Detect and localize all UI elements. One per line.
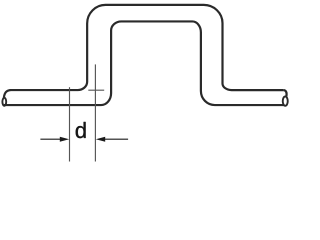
wire: right tube end hook (284, 90, 287, 96)
wire: left tube end hook (4, 90, 11, 98)
diagram: offset tube bend with dimension d (0, 0, 291, 165)
wire: tube upper wall outline (10, 5, 284, 90)
node: left tube end ellipse (2, 98, 6, 106)
label d (dimension text) (76, 122, 86, 138)
wire: right dimension arrow (104, 138, 128, 140)
wire: tube lower wall outline (4, 21, 284, 105)
wire: bend tangent cross mark (88, 89, 104, 91)
wire: left extension line (69, 87, 71, 161)
wire: left dimension arrow (40, 138, 61, 140)
wire: right extension line (bend axis) (94, 64, 96, 161)
node: right tube end ellipse (283, 96, 288, 105)
